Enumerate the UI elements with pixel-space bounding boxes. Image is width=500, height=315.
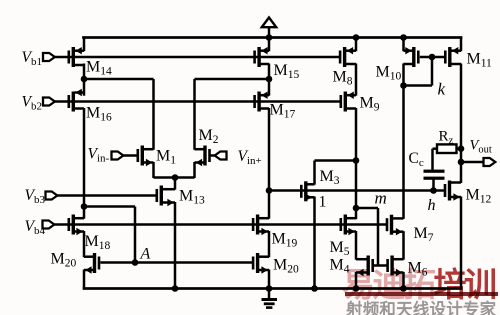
wire: M19 source to M20 drain	[268, 231, 271, 257]
wire: node k vertical to gate line	[431, 57, 434, 86]
wire: M10 source stub	[402, 38, 405, 52]
svg-text:m: m	[375, 189, 387, 208]
wire: M8 drain to M9 source	[355, 64, 358, 96]
wire: node k column down to M7 drain	[402, 86, 405, 219]
node m junction	[353, 205, 360, 212]
wire: M10 drain stub to node k	[402, 64, 405, 86]
wire: M18 drain to M20 drain	[83, 231, 86, 257]
svg-text:Vb1: Vb1	[22, 49, 42, 68]
svg-text:M5: M5	[330, 239, 350, 258]
wire: M11 drain to M12 drain output column	[460, 64, 463, 184]
transistor M6	[386, 256, 403, 277]
wire: node 1 / h line from M17 drain to M12 gate	[269, 189, 444, 192]
svg-text:1: 1	[319, 194, 327, 211]
port Vout	[484, 158, 496, 166]
wire: M2 drain to M15/M17 node	[195, 78, 270, 81]
junction M15 M17 cascode node	[266, 76, 273, 83]
wire: M1 source stub	[152, 162, 155, 178]
wire: M3 source to ground rail	[313, 197, 316, 289]
svg-text:M3: M3	[320, 168, 340, 187]
wire: M7 source to M6 drain	[402, 231, 405, 260]
wire: Vb2 bias line	[55, 100, 341, 103]
svg-text:M11: M11	[467, 51, 493, 70]
svg-text:Vout: Vout	[470, 138, 492, 156]
junction M3 drain M9 drain	[353, 157, 360, 164]
port Vin-	[112, 152, 124, 160]
svg-text:Vb2: Vb2	[22, 94, 42, 113]
wire: M13 drain stub	[174, 178, 177, 190]
svg-text:M20: M20	[51, 251, 77, 270]
wire: node A feed horizontal	[84, 205, 135, 208]
junction ground symbol on rail	[266, 285, 273, 292]
junction Cc on h line	[430, 187, 437, 194]
wire: Cc bottom stub to h line	[432, 177, 435, 191]
transistor M17	[253, 92, 269, 112]
wire: Vout lead	[461, 161, 484, 164]
node VDD junction	[266, 34, 273, 41]
svg-text:Vb3: Vb3	[25, 187, 46, 206]
svg-text:M2: M2	[199, 127, 219, 146]
transistor M8	[339, 47, 356, 67]
wire: Vb4 bias line to M18 M19 M5 M7	[54, 223, 386, 226]
wire: M8 source stub	[355, 38, 358, 52]
transistor M13	[156, 186, 176, 207]
junction M10 source on rail	[400, 34, 407, 41]
wire: M4 source to ground rail	[355, 272, 358, 289]
wire: M3 drain link to M9 column	[315, 159, 357, 162]
transistor M9	[340, 92, 357, 112]
junction M4 source on ground rail	[353, 285, 360, 292]
junction M8 source on rail	[353, 34, 360, 41]
svg-text:M1: M1	[156, 148, 176, 167]
svg-text:M10: M10	[376, 64, 402, 83]
wire: node m horizontal	[356, 207, 378, 210]
port Vb1	[43, 53, 55, 61]
transistor M7	[386, 215, 404, 236]
wire: cascode node to M1 drain	[84, 78, 154, 81]
ground symbol	[262, 289, 278, 309]
wire: M1 drain riser	[152, 79, 155, 150]
transistor M5	[340, 215, 357, 236]
svg-text:M9: M9	[360, 95, 380, 114]
wire: M5 drain stub to node m	[355, 208, 358, 219]
transistor M20 left	[84, 253, 100, 274]
wire: top VDD rail	[82, 36, 462, 39]
watermark logo	[342, 258, 495, 306]
transistor M14	[68, 47, 85, 67]
wire: M10 M11 gate line	[420, 56, 444, 59]
watermark underline bar	[345, 292, 498, 297]
wire: M14 source stub	[83, 38, 86, 52]
watermark caption	[346, 296, 496, 315]
port Vb3	[46, 192, 58, 200]
junction Vout tap	[458, 159, 465, 166]
svg-text:k: k	[438, 80, 446, 99]
junction M16 drain M18 source node	[81, 203, 88, 210]
wire: M12 source to ground rail	[460, 197, 463, 289]
wire: Vb1 bias line	[55, 56, 340, 59]
capacitor Cc	[424, 170, 445, 180]
port Vb2	[43, 98, 55, 106]
svg-text:M15: M15	[274, 62, 300, 81]
wire: node A feed vertical	[134, 207, 137, 263]
wire: M2 drain riser	[193, 79, 196, 150]
svg-text:M19: M19	[272, 231, 298, 250]
wire: M9 drain column to node m	[355, 108, 358, 208]
node 1 junction	[266, 187, 273, 194]
wire: differential pair tail	[154, 176, 195, 179]
transistor M18	[68, 215, 85, 236]
junction Rz output node	[458, 145, 465, 152]
junction M3 source on ground rail	[311, 285, 318, 292]
svg-text:M18: M18	[85, 233, 111, 252]
node k gate junction	[429, 54, 436, 61]
node A junction	[132, 259, 139, 266]
wire: M5 source to M4 drain	[355, 231, 358, 260]
wire: Vb3 bias line	[55, 194, 157, 197]
wire: Vin+ gate lead	[210, 154, 227, 157]
svg-text:Rz: Rz	[439, 129, 454, 147]
node k drain junction	[400, 82, 407, 89]
transistor M11	[444, 47, 461, 67]
wire: M20 source to ground rail	[268, 270, 271, 289]
transistor M16	[68, 89, 85, 112]
svg-text:M16: M16	[86, 105, 112, 124]
transistor M15	[253, 47, 269, 67]
transistor M2	[195, 146, 211, 167]
wire: M15 source stub	[268, 38, 271, 52]
wire: Vin- gate lead	[123, 154, 138, 157]
junction M6 source on ground rail	[400, 285, 407, 292]
wire: M14 drain / M16 source column	[83, 64, 86, 96]
wire: M2 source stub	[193, 162, 196, 178]
svg-text:M17: M17	[270, 102, 296, 121]
svg-text:h: h	[428, 197, 436, 214]
junction tail node M13 drain	[172, 174, 179, 181]
wire: node k horizontal	[404, 84, 433, 87]
svg-text:Vin-: Vin-	[88, 146, 110, 165]
wire: M11 source stub	[460, 38, 463, 52]
junction M14 M16 cascode node	[81, 76, 88, 83]
svg-text:M13: M13	[179, 188, 205, 207]
transistor M19	[252, 215, 269, 236]
svg-text:M14: M14	[86, 59, 112, 78]
wire: Rz left lead	[433, 147, 439, 150]
wire: M3 drain riser	[313, 161, 316, 185]
svg-text:A: A	[140, 246, 151, 263]
wire: left M20 source to ground rail	[83, 270, 86, 289]
svg-text:M8: M8	[333, 69, 353, 88]
wire: bottom ground rail	[83, 287, 463, 290]
VDD supply symbol	[262, 18, 276, 40]
junction M13 on ground rail	[172, 285, 179, 292]
wire: M17 drain column down to node 1 and M19	[268, 108, 271, 219]
wire: node A line	[100, 261, 252, 264]
wire: Rz to Cc vertical	[431, 149, 434, 170]
transistor M4	[356, 256, 374, 277]
wire: M16 drain column down to M18	[83, 108, 86, 219]
wire: M13 source to ground rail	[174, 202, 177, 289]
transistor M20 right	[252, 253, 269, 274]
resistor Rz	[437, 144, 457, 153]
wire: M15 drain / M17 source column	[268, 64, 271, 96]
svg-text:M20: M20	[273, 257, 299, 276]
port Vin+	[215, 152, 227, 160]
wire: M4 M6 gate link	[374, 264, 387, 267]
wire: node m vertical to M6 M7 gates	[377, 208, 380, 266]
svg-text:Cc: Cc	[409, 150, 424, 169]
transistor M3	[300, 181, 315, 201]
transistor M10	[404, 47, 420, 67]
svg-text:M12: M12	[466, 187, 492, 206]
wire: Rz right lead	[456, 147, 462, 150]
svg-text:M7: M7	[414, 225, 434, 244]
svg-text:Vin+: Vin+	[238, 148, 262, 167]
port Vb4	[43, 221, 55, 229]
transistor M1	[137, 146, 154, 167]
transistor M12	[444, 181, 461, 201]
wire: M6 source to ground rail	[402, 272, 405, 289]
